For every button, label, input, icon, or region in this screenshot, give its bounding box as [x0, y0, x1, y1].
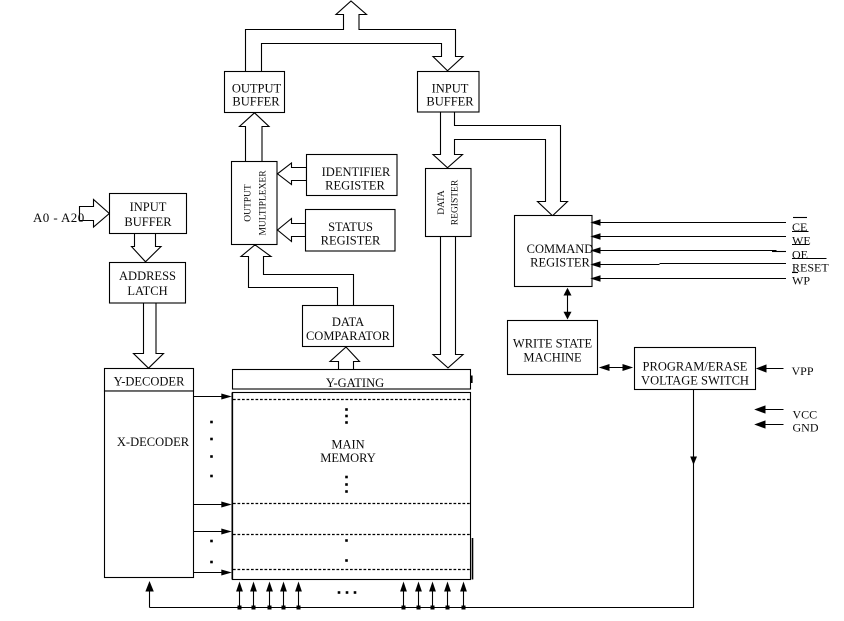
svg-text:COMMAND: COMMAND: [527, 242, 594, 256]
svg-text:OUTPUT: OUTPUT: [232, 82, 282, 96]
svg-text:Y-DECODER: Y-DECODER: [114, 375, 185, 389]
svg-text:X-DECODER: X-DECODER: [117, 435, 190, 449]
svg-text:COMPARATOR: COMPARATOR: [306, 329, 391, 343]
svg-text:REGISTER: REGISTER: [451, 179, 461, 225]
svg-text:REGISTER: REGISTER: [530, 256, 590, 270]
svg-text:BUFFER: BUFFER: [232, 95, 280, 109]
svg-text:REGISTER: REGISTER: [321, 234, 381, 248]
svg-text:WE: WE: [792, 234, 811, 248]
svg-text:STATUS: STATUS: [328, 220, 373, 234]
svg-text:VPP: VPP: [792, 364, 814, 378]
svg-text:CE: CE: [792, 220, 807, 234]
svg-text:Y-GATING: Y-GATING: [326, 376, 384, 390]
svg-text:INPUT: INPUT: [130, 200, 167, 214]
svg-text:MULTIPLEXER: MULTIPLEXER: [259, 170, 269, 236]
svg-text:A0 - A20: A0 - A20: [33, 210, 85, 225]
svg-text:BUFFER: BUFFER: [426, 95, 474, 109]
svg-text:ADDRESS: ADDRESS: [119, 269, 176, 283]
svg-text:RESET: RESET: [792, 261, 829, 275]
svg-text:LATCH: LATCH: [127, 284, 167, 298]
svg-text:DATA: DATA: [437, 190, 447, 215]
svg-text:MACHINE: MACHINE: [523, 351, 582, 365]
svg-text:OUTPUT: OUTPUT: [244, 184, 254, 222]
svg-text:IDENTIFIER: IDENTIFIER: [322, 165, 391, 179]
svg-text:BUFFER: BUFFER: [124, 215, 172, 229]
svg-text:WP: WP: [792, 274, 810, 288]
svg-text:DATA: DATA: [332, 315, 364, 329]
svg-text:INPUT: INPUT: [432, 82, 469, 96]
svg-text:VOLTAGE SWITCH: VOLTAGE SWITCH: [641, 374, 749, 388]
svg-text:WRITE STATE: WRITE STATE: [513, 337, 593, 351]
svg-text:MAIN: MAIN: [331, 438, 364, 452]
svg-text:REGISTER: REGISTER: [325, 179, 385, 193]
svg-text:GND: GND: [793, 420, 819, 434]
svg-text:MEMORY: MEMORY: [320, 451, 376, 465]
svg-text:PROGRAM/ERASE: PROGRAM/ERASE: [643, 360, 748, 374]
